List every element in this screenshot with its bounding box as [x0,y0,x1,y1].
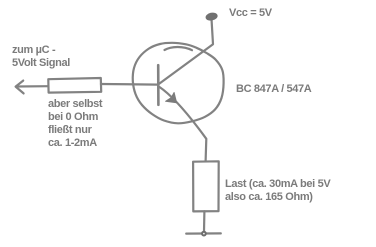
ground junction dot [202,232,206,236]
label: Last ... [225,178,330,204]
collector line [160,21,214,84]
emitter arrowhead [166,93,177,103]
circle overlap stroke [165,47,193,50]
arrowhead to uC [16,81,24,94]
label: Vcc = 5V [229,7,272,20]
wire resistor to ground [203,211,206,231]
resistor R1 (base) [48,78,101,93]
emitter line [160,87,207,161]
ground line [186,232,221,234]
Vcc terminal dot [205,12,217,21]
wire base left segment [17,85,49,88]
transistor base bar [157,65,160,105]
resistor R2 load [193,161,219,211]
transistor Q1 circle [133,43,224,124]
label: BC 847A / 547A [236,83,311,96]
label: zum uC 5Volt Signal [12,44,70,70]
wire base right segment [101,83,158,86]
label: aber selbst ... [48,98,102,150]
